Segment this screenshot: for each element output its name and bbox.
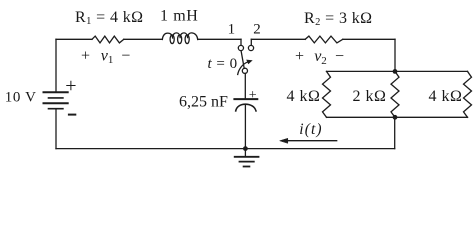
svg-text:6,25 nF: 6,25 nF: [179, 93, 228, 110]
wire pole to capacitor: [244, 73, 246, 99]
inductor L1 coil: [162, 33, 172, 39]
current arrow i(t) line: [283, 140, 337, 142]
bottom rail node dot: [393, 115, 398, 120]
svg-text:+: +: [65, 75, 76, 97]
resistor R1 zigzag: [92, 36, 124, 43]
battery minus sign: [68, 114, 76, 116]
ground bar 1: [235, 156, 259, 158]
svg-text:10 V: 10 V: [5, 89, 37, 105]
switch arm pole to contact 1: [241, 51, 244, 69]
svg-text:1 mH: 1 mH: [160, 8, 198, 25]
top rail right segment: [395, 70, 468, 72]
svg-text:t = 0: t = 0: [208, 56, 238, 72]
capacitor C top plate: [234, 98, 257, 100]
resistor RB 2k vertical zigzag: [391, 71, 399, 117]
svg-text:R1 = 4 kΩ: R1 = 4 kΩ: [75, 9, 143, 27]
svg-text:2 kΩ: 2 kΩ: [353, 88, 387, 105]
bottom return wire: [56, 148, 395, 150]
switch motion arrowhead: [247, 60, 252, 64]
switch contact circle 2: [248, 45, 253, 50]
switch pole circle: [242, 68, 247, 73]
inductor arch 2-3: [180, 33, 188, 38]
inductor exit arch: [188, 33, 198, 40]
bottom rail left segment: [327, 116, 396, 118]
wire switch contact 2 to R2: [251, 38, 305, 40]
svg-text:+: +: [249, 88, 257, 103]
left wire bottom vertical: [55, 109, 57, 149]
wire bottom rail down: [394, 117, 396, 148]
svg-text:2: 2: [253, 21, 260, 37]
svg-text:+v2−: +v2−: [295, 48, 344, 67]
inductor loop 3: [185, 35, 189, 44]
capacitor C curved bottom plate: [236, 104, 256, 111]
svg-text:+v1−: +v1−: [81, 47, 130, 66]
svg-text:1: 1: [228, 21, 236, 37]
wire right corner down to top rail: [394, 39, 396, 71]
svg-text:R2 = 3 kΩ: R2 = 3 kΩ: [304, 10, 372, 28]
top rail left segment: [327, 70, 396, 72]
wire inductor to switch contact 1: [198, 38, 241, 40]
top rail node dot: [393, 69, 398, 74]
switch contact stub 2: [250, 39, 252, 45]
ground bar 3: [244, 166, 250, 168]
svg-text:4 kΩ: 4 kΩ: [429, 88, 463, 105]
inductor arch 1-2: [173, 33, 181, 38]
resistor R2 zigzag: [305, 36, 343, 43]
left wire top vertical: [55, 39, 57, 92]
battery V1 long plate: [44, 102, 68, 104]
bottom node junction dot: [243, 146, 248, 151]
bottom rail right segment: [395, 116, 468, 118]
resistor RC 4k vertical zigzag: [464, 71, 472, 117]
current arrowhead: [280, 138, 288, 143]
ground stub: [244, 149, 246, 157]
wire top-left segment from battery to R1: [56, 38, 92, 40]
switch contact circle 1: [238, 45, 243, 50]
ground bar 2: [240, 161, 254, 163]
switch contact stub 1: [240, 39, 242, 45]
wire capacitor to bottom node: [244, 104, 246, 148]
switch motion arrow arc t=0: [238, 62, 248, 75]
battery V1 long plate top: [44, 91, 68, 93]
inductor loop 2: [178, 35, 182, 44]
wire R2 to right corner: [343, 38, 395, 40]
battery V1 short plate bottom: [49, 108, 63, 110]
wire R1 to inductor: [124, 38, 163, 40]
battery V1 short plate: [49, 97, 63, 99]
svg-text:i(t): i(t): [299, 121, 322, 138]
svg-text:4 kΩ: 4 kΩ: [287, 88, 321, 105]
resistor RA 4k vertical zigzag: [323, 71, 331, 117]
inductor loop 1: [170, 35, 174, 44]
